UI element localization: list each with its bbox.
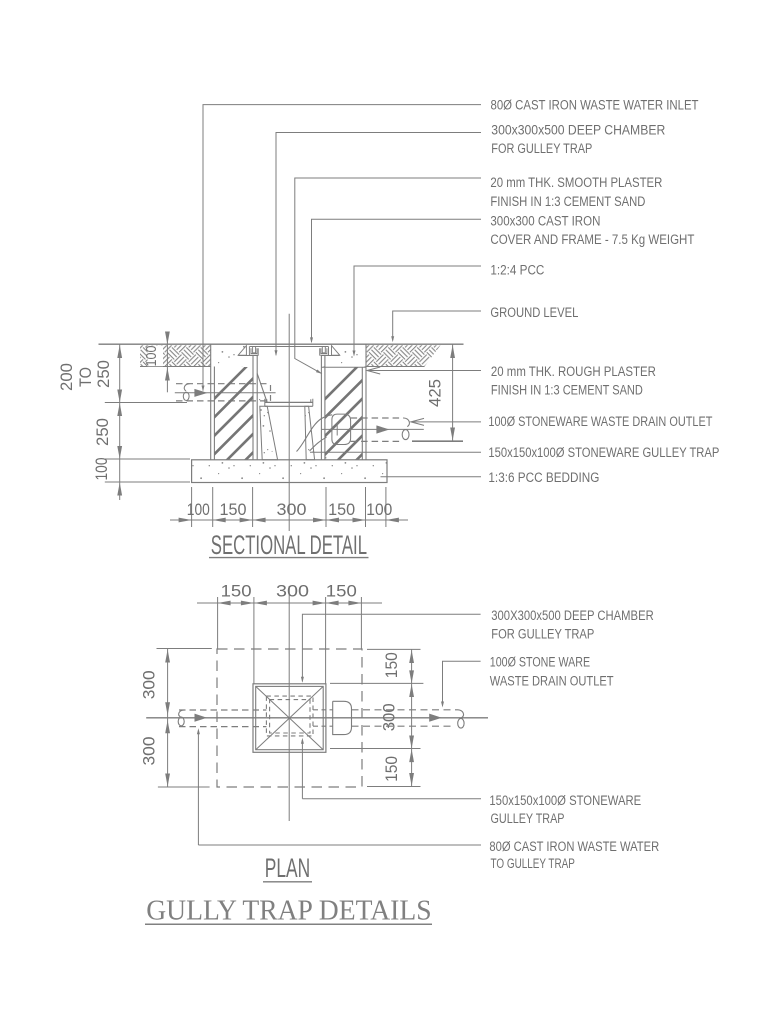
- plan right dim vertical: [411, 649, 413, 786]
- left dim vertical line: [119, 345, 121, 501]
- plan left dim vertical: [167, 649, 169, 787]
- plan outlet spigot end: [458, 710, 463, 718]
- ground hatch right block: [366, 345, 441, 366]
- pcc collar right speckled: [321, 346, 366, 368]
- leader stoneware outlet with open arrow: [412, 421, 481, 423]
- plan leader 80dia to gulley trap: [197, 731, 199, 846]
- svg-text:1:3:6 PCC BEDDING: 1:3:6 PCC BEDDING: [488, 470, 599, 485]
- svg-text:300x300 CAST IRON: 300x300 CAST IRON: [490, 214, 600, 229]
- bottom dim extension lines: [191, 487, 193, 527]
- svg-text:425: 425: [426, 379, 445, 407]
- leader smooth plaster: [295, 178, 481, 374]
- svg-text:150: 150: [382, 652, 401, 678]
- leader deep chamber: [276, 133, 481, 356]
- left dim arrows: [117, 345, 122, 358]
- svg-text:PLAN: PLAN: [265, 853, 310, 883]
- trap outlet S-curve upper: [297, 415, 333, 452]
- svg-text:300: 300: [276, 582, 309, 601]
- svg-text:300: 300: [140, 670, 159, 699]
- svg-text:TO: TO: [76, 367, 95, 387]
- svg-text:150: 150: [221, 582, 252, 601]
- pcc bedding 1:3:6 speckled: [192, 460, 387, 483]
- plan inlet pipe spigot end: [179, 710, 184, 717]
- plan horizontal centerline (pipe axis): [146, 717, 488, 719]
- plan inlet arrow: [195, 714, 208, 722]
- plan inlet pipe dashed edges: [179, 709, 266, 711]
- bottom dim arrows: [179, 518, 192, 523]
- svg-text:250: 250: [94, 360, 113, 388]
- inlet pipe centerline: [175, 392, 276, 394]
- svg-text:300x300x500 DEEP CHAMBER: 300x300x500 DEEP CHAMBER: [491, 123, 665, 138]
- inlet flow arrow: [194, 389, 207, 397]
- plan chamber inner square: [256, 686, 324, 749]
- svg-text:FOR GULLEY TRAP: FOR GULLEY TRAP: [491, 141, 592, 156]
- ground hatch left block: [140, 345, 211, 366]
- trap outlet S-curve lower: [310, 437, 327, 451]
- plan right dim ticks: [367, 648, 421, 650]
- svg-text:150x150x100Ø STONEWARE GULLEY: 150x150x100Ø STONEWARE GULLEY TRAP: [488, 445, 719, 460]
- svg-text:150: 150: [220, 500, 247, 519]
- frame wedge right (triangle): [332, 346, 340, 356]
- plan left dim ticks: [157, 648, 212, 650]
- svg-text:80Ø CAST IRON WASTE WATER: 80Ø CAST IRON WASTE WATER: [489, 839, 659, 854]
- svg-text:TO GULLEY TRAP: TO GULLEY TRAP: [491, 856, 575, 871]
- frame wedge left (triangle): [238, 346, 246, 356]
- plan socket connector lines: [313, 709, 330, 711]
- plan outer dashed square (excavation): [217, 649, 362, 787]
- svg-text:FOR GULLEY TRAP: FOR GULLEY TRAP: [491, 627, 594, 642]
- 425 dim right of section: [452, 345, 454, 442]
- cover right end tab into frame channel: [322, 347, 325, 353]
- right wall inner face lines: [320, 356, 322, 460]
- svg-text:GULLY TRAP DETAILS: GULLY TRAP DETAILS: [146, 895, 431, 927]
- leader cast iron cover: [312, 219, 482, 342]
- svg-text:250: 250: [93, 418, 112, 446]
- svg-text:150x150x100Ø STONEWARE: 150x150x100Ø STONEWARE: [489, 793, 641, 808]
- svg-text:SECTIONAL DETAIL: SECTIONAL DETAIL: [211, 530, 367, 560]
- outlet pipe dashed edges: [351, 417, 404, 419]
- trap rim double line: [265, 401, 313, 403]
- plan outlet socket: [333, 701, 352, 734]
- white box behind 100 dim text: [148, 346, 164, 367]
- svg-text:100: 100: [143, 346, 160, 367]
- svg-text:150: 150: [328, 500, 355, 519]
- bottom dim line: [170, 519, 408, 521]
- gulley trap funnel left slant + speckle: [257, 374, 267, 403]
- plan leader stoneware outlet: [443, 661, 481, 706]
- svg-text:WASTE DRAIN OUTLET: WASTE DRAIN OUTLET: [490, 673, 614, 688]
- leader ground level: [393, 311, 481, 340]
- svg-text:COVER AND FRAME - 7.5 Kg WEIGH: COVER AND FRAME - 7.5 Kg WEIGHT: [490, 232, 694, 247]
- outlet flow arrow: [376, 425, 389, 433]
- ground level line: [99, 343, 464, 345]
- outlet pipe spigot end curve: [404, 418, 410, 427]
- leader 1:2:4 pcc: [354, 266, 481, 355]
- svg-text:GULLEY TRAP: GULLEY TRAP: [491, 811, 565, 826]
- plan top dim line: [197, 602, 382, 604]
- leader stoneware gulley trap: [310, 451, 481, 453]
- svg-text:1:2:4 PCC: 1:2:4 PCC: [490, 263, 544, 278]
- cast iron cover plate bottom line: [250, 346, 329, 348]
- right wall outer face lines: [361, 367, 363, 460]
- left wall outer face lines: [210, 345, 212, 460]
- inlet pipe 80dia dashed (through left wall): [176, 383, 271, 385]
- svg-text:FINISH IN 1:3 CEMENT SAND: FINISH IN 1:3 CEMENT SAND: [491, 383, 643, 398]
- pcc collar left (1:2:4 PCC) speckled: [211, 346, 258, 367]
- svg-text:150: 150: [326, 582, 357, 601]
- plan chamber outer square: [253, 684, 326, 753]
- outlet socket (rounded): [332, 414, 351, 444]
- svg-text:100Ø STONE WARE: 100Ø STONE WARE: [490, 655, 590, 670]
- svg-text:300X300x500 DEEP CHAMBER: 300X300x500 DEEP CHAMBER: [491, 608, 654, 623]
- inlet pipe spigot end curve: [184, 384, 189, 391]
- trap outlet lower speckle wedge: [313, 439, 327, 460]
- plan trap dashed square inner: [270, 700, 310, 733]
- svg-text:100Ø STONEWARE WASTE DRAIN OUT: 100Ø STONEWARE WASTE DRAIN OUTLET: [488, 414, 712, 429]
- svg-text:300: 300: [380, 703, 399, 731]
- plan diagonals X: [256, 686, 324, 749]
- svg-text:150: 150: [382, 756, 401, 782]
- plan leader gulley trap: [301, 740, 303, 799]
- socket centre tick: [336, 424, 338, 436]
- svg-text:300: 300: [277, 500, 307, 519]
- leader pcc bedding: [381, 476, 482, 478]
- plan top dim arrows: [218, 601, 231, 606]
- leader 80dia inlet: [203, 105, 481, 391]
- cover left end tab into frame channel: [253, 347, 256, 353]
- svg-text:20 mm THK. ROUGH PLASTER: 20 mm THK. ROUGH PLASTER: [491, 364, 656, 379]
- plan trap dashed square outer: [266, 696, 313, 736]
- svg-text:200: 200: [57, 363, 76, 391]
- left wall inner face lines: [252, 356, 254, 460]
- frame channel left (U profile): [249, 347, 258, 356]
- chamber centerline: [288, 314, 290, 531]
- svg-text:80Ø CAST IRON WASTE WATER INLE: 80Ø CAST IRON WASTE WATER INLET: [491, 98, 699, 113]
- svg-text:20 mm THK. SMOOTH PLASTER: 20 mm THK. SMOOTH PLASTER: [490, 175, 662, 190]
- outlet pipe centerline: [321, 428, 423, 430]
- plan vertical centerline: [288, 586, 290, 821]
- svg-text:100: 100: [366, 500, 392, 519]
- frame channel right (U profile): [320, 347, 329, 356]
- svg-text:FINISH IN 1:3 CEMENT SAND: FINISH IN 1:3 CEMENT SAND: [490, 194, 645, 209]
- plan outlet pipe dashed edges: [352, 709, 459, 711]
- trap left wedge below rim (speckled): [260, 406, 278, 460]
- leader rough plaster with open arrow: [369, 370, 482, 372]
- svg-text:300: 300: [140, 737, 159, 766]
- plan outlet arrow: [429, 714, 442, 722]
- plan top dim extension lines: [217, 597, 219, 649]
- left dim ticks: [105, 402, 187, 404]
- trap right wedge below rim (speckled): [305, 406, 315, 460]
- svg-text:100: 100: [92, 458, 111, 481]
- svg-text:100: 100: [187, 500, 210, 519]
- hatch depth 100 dim (inside strip): [166, 332, 168, 393]
- plan leader deep chamber: [302, 614, 480, 681]
- svg-text:GROUND LEVEL: GROUND LEVEL: [490, 305, 578, 320]
